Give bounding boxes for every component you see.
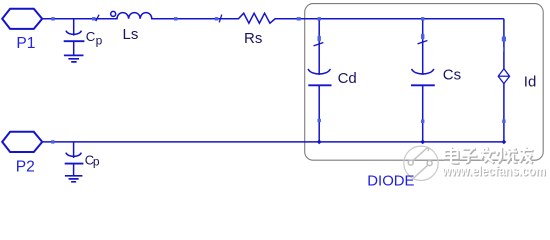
svg-text:DIODE: DIODE [367, 174, 414, 189]
svg-text:Id: Id [524, 73, 537, 90]
svg-text:C: C [86, 29, 96, 44]
svg-text:Cd: Cd [338, 70, 357, 87]
svg-text:p: p [96, 33, 103, 47]
svg-text:Cs: Cs [443, 66, 461, 83]
svg-text:Rs: Rs [244, 30, 262, 47]
svg-text:www.elecfans.com: www.elecfans.com [441, 163, 545, 178]
svg-text:Ls: Ls [123, 26, 139, 43]
svg-text:P1: P1 [16, 35, 35, 52]
svg-text:P2: P2 [16, 159, 35, 176]
svg-text:p: p [93, 155, 100, 169]
